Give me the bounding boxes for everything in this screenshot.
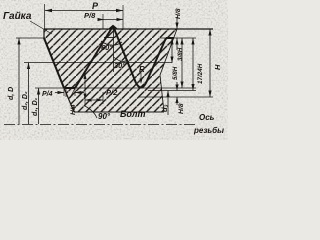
central tooth right flank bbox=[113, 26, 136, 83]
bolt bottom edge bbox=[74, 111, 164, 113]
dimension H bbox=[209, 29, 211, 97]
right tooth flank bbox=[146, 38, 166, 83]
bolt root rounding R bbox=[136, 83, 146, 88]
thread profile: nut left flank bbox=[44, 38, 64, 88]
broken-out right edge bbox=[160, 29, 177, 112]
dimension P bbox=[45, 10, 123, 12]
central tooth left flank bbox=[75, 26, 113, 88]
pitch line d2/D2 bbox=[24, 62, 172, 64]
d1,D1 half-dimension bbox=[38, 88, 40, 124]
d/D line right segment bbox=[160, 37, 196, 39]
scan noise overlay bbox=[0, 0, 1, 1]
dimension 3/8H bbox=[171, 38, 173, 63]
nut root flat P/4 bbox=[64, 87, 75, 89]
leader from Гайка bbox=[30, 21, 52, 34]
vertical half-angle reference bbox=[113, 29, 115, 72]
vertical through pitch point bbox=[84, 73, 86, 106]
sharp root level line bbox=[138, 96, 213, 98]
top line (sharp crest level) bbox=[44, 28, 213, 30]
crest flat mark bbox=[104, 37, 115, 39]
axis line (dash-dot) bbox=[4, 124, 196, 126]
angle 60 arc bbox=[101, 41, 122, 45]
right crest flat bbox=[166, 37, 174, 39]
d2,D2 half-dimension bbox=[28, 63, 30, 125]
angle 30 arc bbox=[114, 57, 129, 61]
apex mark bbox=[109, 26, 117, 30]
nut section left edge bbox=[43, 29, 45, 38]
d1/D1 line bbox=[35, 87, 196, 89]
dimension H/4 bbox=[65, 88, 67, 97]
dimension 5/8H bbox=[181, 38, 183, 88]
ext line P left bbox=[44, 4, 46, 29]
dimension P/2 bbox=[85, 99, 103, 101]
dimension 17/24H bbox=[192, 38, 194, 91]
section body (nut+bolt) hatched bbox=[44, 29, 177, 112]
angle 90 arc bbox=[85, 106, 97, 118]
sharp V extension left groove bbox=[64, 88, 75, 98]
ext line P/P8 right bbox=[122, 5, 124, 29]
d,D half-dimension bbox=[18, 38, 20, 124]
d/D line left segment bbox=[16, 37, 45, 39]
d3 line bbox=[148, 90, 196, 92]
ext line P/8 left bbox=[102, 14, 104, 29]
bolt left edge bbox=[64, 88, 74, 112]
d3 half-dimension line bbox=[167, 91, 169, 116]
dimension H/8 bottom bbox=[176, 82, 178, 105]
